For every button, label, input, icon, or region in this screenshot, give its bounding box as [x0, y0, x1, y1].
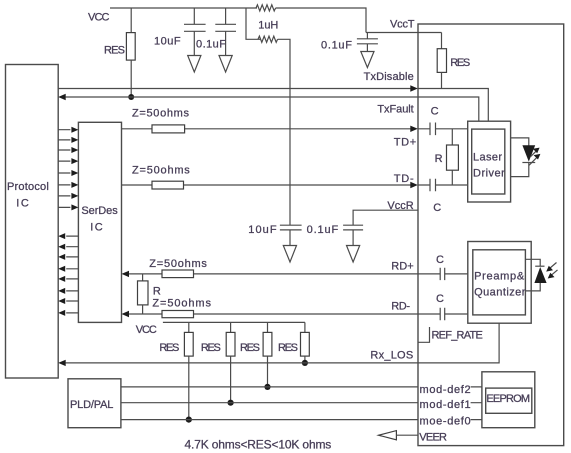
node REF_RATE pin flag — [418, 327, 430, 342]
resistor RES pullup 1 — [188, 322, 190, 332]
capacitor 0.1uF (top) — [225, 8, 227, 24]
SFP module boundary box — [418, 24, 564, 446]
svg-text:Laser: Laser — [473, 151, 502, 163]
svg-text:PLD/PAL: PLD/PAL — [70, 399, 113, 411]
resistor Z=50ohms (RD-) — [162, 311, 194, 318]
svg-text:Z=50ohms: Z=50ohms — [149, 258, 207, 270]
wire TD+ with arrow — [122, 128, 412, 130]
parallel bus arrows SerDes to Protocol IC (8 left) — [58, 233, 78, 316]
wire VCC top rail — [110, 7, 257, 9]
resistor Z=50ohms (TD+) — [152, 125, 185, 133]
inductor 1uH bottom winding — [258, 36, 278, 42]
wire moe-def0 — [121, 419, 482, 421]
ground (below mid 0.1uF) — [347, 246, 360, 263]
svg-text:Rx_LOS: Rx_LOS — [370, 350, 413, 362]
capacitor C (TD- coupling) — [418, 184, 468, 186]
svg-text:0.1uF: 0.1uF — [321, 39, 352, 51]
ground (below 10uF top) — [188, 56, 201, 73]
svg-text:10uF: 10uF — [248, 224, 277, 236]
svg-text:VCC: VCC — [136, 324, 157, 336]
wire top rail to VccT corner — [276, 8, 366, 33]
Protocol IC U1 — [6, 65, 59, 379]
svg-text:Quantizer: Quantizer — [474, 287, 526, 299]
capacitor C (RD+ coupling) — [440, 268, 445, 280]
svg-text:IC: IC — [16, 198, 29, 210]
EEPROM U6 — [482, 372, 535, 428]
svg-text:C: C — [433, 202, 441, 214]
svg-text:VccT: VccT — [390, 18, 415, 30]
junction dot moe-def0 — [186, 417, 192, 423]
junction dot mod-def1 — [228, 400, 234, 406]
svg-text:RD-: RD- — [391, 301, 410, 313]
wire TD- with arrow — [122, 184, 412, 186]
svg-text:RES: RES — [278, 342, 298, 354]
capacitor 10uF (top) — [193, 8, 195, 24]
svg-text:RES: RES — [201, 342, 221, 354]
wire RD+ with arrow into SerDes — [122, 271, 130, 277]
resistor Z=50ohms (TD-) — [152, 181, 184, 189]
resistor RES pullup 4 — [304, 322, 306, 332]
resistor RES (TxFault pullup inside module) — [441, 33, 443, 49]
svg-text:VCC: VCC — [88, 12, 110, 24]
svg-text:RES: RES — [450, 57, 470, 69]
junction dot Rx_LOS — [302, 360, 308, 366]
svg-text:Protocol: Protocol — [7, 181, 49, 193]
svg-text:Driver: Driver — [473, 167, 505, 179]
svg-text:1uH: 1uH — [258, 19, 278, 31]
junction dot mod-def2 — [264, 384, 270, 390]
svg-text:Z=50ohms: Z=50ohms — [132, 108, 190, 120]
wire VccT feed — [366, 32, 442, 34]
svg-text:TxDisable: TxDisable — [364, 71, 414, 83]
ground (below 0.1uF VccT) — [361, 52, 374, 68]
resistor RES pullup 3 — [267, 322, 269, 332]
op-amp U4 Preamp & Quantizer — [468, 242, 531, 324]
ground (below mid 10uF) — [283, 246, 296, 263]
resistor R (TD bias) — [451, 129, 453, 145]
svg-text:Z=50ohms: Z=50ohms — [132, 165, 190, 177]
LED emission arrows — [531, 151, 537, 157]
op-amp U3 Laser Driver — [468, 121, 511, 202]
PLD/PAL U5 — [68, 379, 121, 428]
svg-text:EEPROM: EEPROM — [486, 393, 530, 405]
junction dot on TxFault line — [128, 94, 134, 100]
svg-text:SerDes: SerDes — [81, 205, 118, 217]
wire mod-def1 — [121, 402, 482, 404]
svg-text:10uF: 10uF — [154, 36, 181, 48]
svg-text:RES: RES — [159, 342, 179, 354]
svg-text:IC: IC — [90, 221, 103, 233]
photodiode incoming light arrows — [550, 263, 557, 269]
wire 1uH branch vertical — [246, 8, 261, 39]
LED laser diode — [511, 138, 529, 146]
svg-text:moe-def0: moe-def0 — [420, 415, 471, 427]
svg-text:Z=50ohms: Z=50ohms — [152, 297, 211, 309]
capacitor 10uF (mid RX supply) — [280, 225, 302, 230]
wire VEER with open arrow — [379, 431, 397, 440]
wire mod-def2 — [121, 386, 482, 388]
wire 1uH bottom to mid 10uF — [278, 39, 290, 225]
parallel bus arrows Protocol IC to SerDes (8 right) — [58, 127, 78, 211]
capacitor 0.1uF (VccT) — [366, 33, 368, 39]
svg-text:0.1uF: 0.1uF — [196, 38, 226, 50]
wire RD- with arrow into SerDes — [122, 311, 130, 317]
svg-text:REF_RATE: REF_RATE — [432, 329, 483, 341]
svg-text:RD+: RD+ — [391, 260, 414, 272]
svg-text:C: C — [436, 254, 444, 266]
svg-text:R: R — [435, 153, 443, 165]
wire TxDisable — [58, 88, 411, 90]
svg-text:mod-def2: mod-def2 — [420, 384, 471, 396]
resistor R (RX termination) — [142, 274, 144, 281]
svg-text:TD-: TD- — [394, 173, 414, 185]
svg-text:VEER: VEER — [419, 432, 447, 444]
svg-text:C: C — [436, 293, 444, 305]
resistor RES (VCC pullup, top left) — [130, 8, 132, 33]
svg-text:C: C — [431, 105, 439, 117]
svg-text:Preamp&: Preamp& — [474, 270, 525, 282]
capacitor C (RD- coupling) — [440, 308, 445, 320]
svg-text:RES: RES — [240, 342, 260, 354]
wire VCC pullup rail — [163, 321, 305, 323]
svg-text:R: R — [153, 285, 161, 297]
ground (below 0.1uF top) — [219, 56, 232, 73]
resistor Z=50ohms (RD+) — [162, 270, 194, 278]
wire Rx_LOS with arrow into Protocol IC — [58, 360, 65, 366]
svg-text:mod-def1: mod-def1 — [420, 399, 471, 411]
svg-text:0.1uF: 0.1uF — [307, 224, 339, 236]
wire TxFault — [58, 94, 65, 100]
photodiode D2 — [525, 259, 540, 266]
svg-text:TxFault: TxFault — [377, 103, 413, 115]
svg-text:RES: RES — [104, 45, 125, 57]
capacitor C (TD+ coupling) — [418, 128, 468, 130]
svg-text:4.7K ohms<RES<10K ohms: 4.7K ohms<RES<10K ohms — [185, 437, 332, 451]
svg-text:TD+: TD+ — [394, 136, 417, 148]
resistor RES pullup 2 — [230, 322, 232, 332]
inductor 1uH top winding — [256, 5, 276, 11]
capacitor 0.1uF (mid RX supply) — [343, 225, 363, 230]
SerDes IC U2 — [78, 122, 121, 322]
